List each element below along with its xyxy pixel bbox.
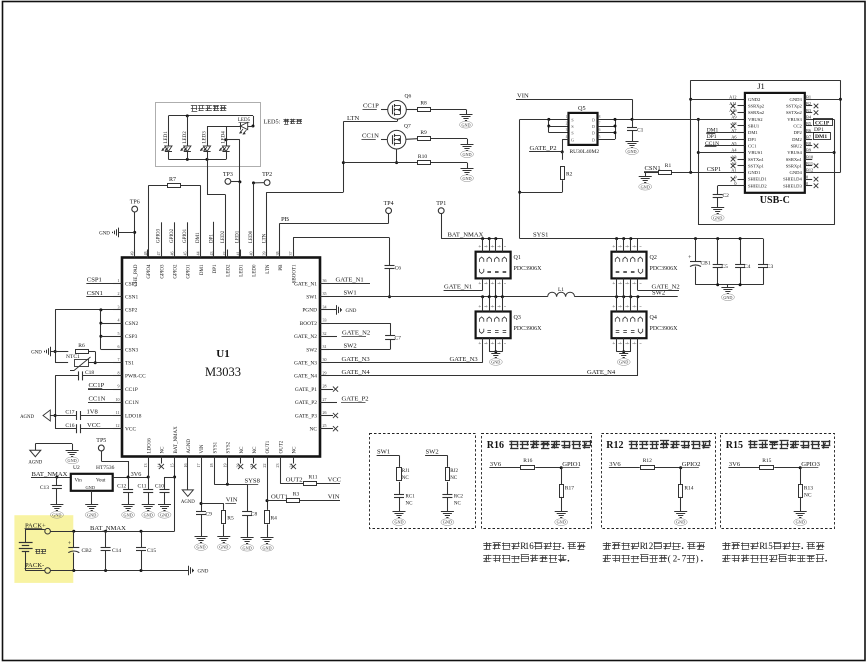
- svg-text:OUT1: OUT1: [271, 494, 288, 501]
- capacitor C1: [631, 118, 634, 121]
- U1 pin 30 GATE_N3: [320, 362, 329, 364]
- transistor Q6: [388, 101, 407, 120]
- svg-text:SSTXn1: SSTXn1: [748, 157, 765, 162]
- svg-text:B7: B7: [806, 134, 812, 139]
- svg-text:R15: R15: [762, 458, 771, 464]
- capacitor C10: [165, 477, 175, 479]
- net GPIO3 wire pin47: [161, 222, 163, 257]
- svg-text:3V6: 3V6: [490, 461, 502, 468]
- svg-text:GND: GND: [796, 520, 805, 525]
- svg-text:NC: NC: [804, 493, 812, 499]
- ground at C2: [711, 207, 724, 209]
- svg-text:SSRXn2: SSRXn2: [748, 110, 765, 115]
- svg-text:VIN: VIN: [517, 92, 529, 99]
- capacitor C5: [717, 239, 719, 265]
- svg-text:VIN: VIN: [226, 497, 238, 504]
- U1 pin 9 CC1P: [113, 389, 122, 391]
- U1 pin 38 PB: [279, 250, 281, 258]
- svg-text:SSRXp2: SSRXp2: [748, 104, 765, 109]
- svg-text:SW1: SW1: [306, 295, 317, 301]
- svg-text:DM1: DM1: [200, 264, 205, 275]
- svg-text:B1: B1: [806, 95, 811, 100]
- net VIN wire to R5: [201, 503, 224, 505]
- svg-text:B5: B5: [806, 121, 811, 126]
- svg-text:27: 27: [323, 397, 327, 402]
- ground at RC2: [441, 511, 454, 513]
- wire pin13 LDO16 to 3V6: [148, 464, 150, 478]
- svg-text:GATE_N2: GATE_N2: [294, 334, 317, 340]
- svg-text:C8: C8: [251, 512, 258, 518]
- svg-text:GATE_N3: GATE_N3: [450, 356, 479, 363]
- wire battery negative rail: [25, 570, 44, 572]
- wire J1 A4 VBUS1: [698, 152, 745, 154]
- net SYS1 wire: [520, 238, 763, 240]
- svg-text:3V6: 3V6: [131, 471, 142, 478]
- U1 pin 48 GPIO4: [147, 250, 149, 258]
- U1 pin 13 LDO16: [148, 457, 150, 464]
- svg-text:7: 7: [118, 357, 120, 362]
- svg-text:TP1: TP1: [436, 201, 446, 207]
- U1 pin 28 GATE_P1: [320, 389, 329, 391]
- wire R10 row: [343, 162, 417, 164]
- svg-text:5: 5: [118, 331, 120, 336]
- svg-text:R16: R16: [523, 458, 532, 464]
- net DP1 wire pin43: [213, 222, 215, 258]
- svg-text:DM2: DM2: [792, 137, 802, 142]
- svg-text:SBU1: SBU1: [748, 124, 760, 129]
- test point TP6: [132, 206, 138, 212]
- svg-text:GATE_P3: GATE_P3: [295, 413, 317, 419]
- svg-text:42: 42: [222, 252, 227, 256]
- svg-text:SYS1: SYS1: [213, 441, 218, 453]
- U1 pin 20 NC: [240, 457, 242, 464]
- U1 pin 25 NC: [320, 428, 329, 430]
- svg-text:LED1: LED1: [235, 230, 240, 243]
- J1 pin 0 SHIELD4: [805, 179, 812, 181]
- svg-text:GND1: GND1: [748, 170, 761, 175]
- IC U1 M3033: [122, 258, 320, 457]
- svg-text:DM1: DM1: [196, 232, 201, 243]
- wire Q2 gate to GATE_N2: [637, 278, 639, 290]
- svg-text:CC1N: CC1N: [362, 133, 379, 140]
- svg-text:CSP1: CSP1: [707, 166, 722, 173]
- svg-text:RJ1: RJ1: [402, 469, 410, 474]
- J1 pin A3 SSTXn1: [738, 159, 745, 161]
- Q4 pin stub marks: [613, 306, 615, 308]
- battery level indicator box: [156, 103, 261, 167]
- svg-text:TP3: TP3: [223, 172, 233, 178]
- svg-text:28: 28: [323, 384, 327, 389]
- J1 pin 0 SHIELD2: [738, 185, 745, 187]
- svg-text:GND: GND: [676, 520, 685, 525]
- svg-text:3V6: 3V6: [609, 461, 621, 468]
- svg-text:35: 35: [323, 291, 327, 296]
- svg-text:PDC3906X: PDC3906X: [650, 326, 679, 332]
- svg-text:R9: R9: [420, 130, 427, 136]
- wire VBUS loop: [698, 119, 700, 224]
- ground at R10: [467, 163, 469, 168]
- J1 pin A1 GND1: [738, 172, 745, 174]
- svg-text:NC: NC: [310, 427, 318, 433]
- svg-text:B12: B12: [806, 168, 813, 173]
- ground at R6: [50, 351, 55, 353]
- svg-text:NC: NC: [406, 502, 414, 507]
- svg-text:B3: B3: [806, 108, 811, 113]
- svg-text:TS1: TS1: [125, 361, 134, 367]
- net GATE_N3 wire pin30: [329, 362, 483, 364]
- svg-text:23: 23: [275, 464, 280, 468]
- net LED0 wire pin40: [253, 183, 255, 258]
- U1 pin 14 NC: [161, 457, 163, 464]
- J1 pin B6 DP2: [805, 132, 812, 134]
- svg-text:R16: R16: [487, 440, 504, 451]
- resistor R3: [287, 499, 300, 503]
- svg-text:SW1: SW1: [377, 448, 390, 455]
- svg-text:7: 7: [599, 122, 601, 126]
- resistor R15: [760, 466, 774, 470]
- U1 pin 44 DM1: [200, 250, 202, 258]
- svg-text:10: 10: [116, 397, 120, 402]
- resistor R16: [521, 466, 535, 470]
- svg-text:SW2: SW2: [426, 448, 439, 455]
- svg-text:D: D: [592, 118, 595, 123]
- svg-text:C2: C2: [723, 193, 730, 199]
- svg-text:LED3: LED3: [203, 131, 208, 144]
- net LTN vertical wire: [343, 122, 345, 193]
- svg-text:3: 3: [566, 128, 568, 132]
- svg-text:GND: GND: [627, 149, 636, 154]
- svg-text:A1: A1: [731, 168, 736, 173]
- capacitor CB2: [73, 531, 75, 547]
- svg-text:31: 31: [323, 344, 327, 349]
- svg-text:D: D: [592, 131, 595, 136]
- wire pin23 OUT2: [280, 464, 282, 484]
- svg-text:SW2: SW2: [306, 347, 317, 353]
- wire VIN row to J1 A9: [632, 119, 745, 121]
- svg-text:3V6: 3V6: [729, 461, 741, 468]
- analog ground AGND tap: [50, 415, 55, 417]
- svg-text:DP1: DP1: [213, 264, 218, 273]
- svg-text:DP2: DP2: [794, 130, 803, 135]
- svg-text:2: 2: [649, 541, 654, 551]
- svg-text:CC2: CC2: [793, 124, 802, 129]
- no-connect pin14: [159, 464, 164, 469]
- U1 pin 49 CHE_PAD: [134, 250, 136, 258]
- svg-text:4: 4: [566, 135, 568, 139]
- transistor Q5 RU30L40M2: [569, 113, 598, 145]
- svg-text:GND: GND: [243, 545, 252, 550]
- net GATE_P2 label pin27: [329, 402, 337, 404]
- svg-text:1V8: 1V8: [87, 409, 99, 416]
- net GPIO1 wire pin45: [187, 222, 189, 257]
- wire J1 B4 VBUS3: [805, 119, 834, 121]
- J1 pin A2 SSTXp1: [738, 165, 745, 167]
- svg-text:6: 6: [529, 541, 534, 551]
- wire LED5 cathode to top bus: [253, 116, 255, 126]
- svg-text:19: 19: [222, 464, 227, 468]
- svg-text:R11: R11: [309, 475, 318, 481]
- wire VIN row left of Q5: [520, 119, 569, 121]
- U1 pin 45 GPIO1: [187, 250, 189, 258]
- svg-text:GND: GND: [196, 545, 205, 550]
- svg-text:GATE_N4: GATE_N4: [587, 369, 616, 376]
- ground at R4: [261, 537, 274, 539]
- svg-text:Vin: Vin: [75, 479, 83, 484]
- svg-text:VBUS1: VBUS1: [748, 150, 763, 155]
- svg-text:S: S: [571, 124, 573, 129]
- svg-text:C15: C15: [147, 548, 156, 554]
- svg-text:LED0: LED0: [249, 230, 254, 243]
- svg-text:22: 22: [262, 464, 267, 468]
- svg-text:R8: R8: [420, 101, 427, 107]
- svg-text:30: 30: [323, 357, 327, 362]
- svg-text:CHE_PAD: CHE_PAD: [134, 264, 139, 286]
- test point TP5: [98, 445, 104, 451]
- U1 pin 36 GATE_N1: [320, 283, 329, 285]
- svg-text:40: 40: [249, 252, 254, 256]
- capacitor C13: [56, 477, 58, 486]
- svg-text:GPIO3: GPIO3: [157, 228, 162, 243]
- svg-text:R14: R14: [684, 486, 693, 492]
- svg-text:SW1: SW1: [344, 290, 357, 297]
- power ground PGND pin34: [329, 309, 336, 311]
- LED bottom bus to pin42 wire: [207, 159, 209, 194]
- net OUT1 wire to R3: [267, 500, 286, 502]
- svg-text:U2: U2: [73, 465, 80, 471]
- svg-text:CC1: CC1: [748, 143, 757, 148]
- svg-text:SHIELD4: SHIELD4: [783, 177, 802, 182]
- capacitor C4: [740, 239, 742, 265]
- U1 pin 40 LED0: [253, 250, 255, 258]
- net GATE_N1 wire pin36: [329, 283, 370, 285]
- net LED1 wire pin41: [239, 182, 241, 258]
- U1 pin 8 PWR-CC: [113, 375, 122, 377]
- U1 pin 18 SYS1: [214, 457, 216, 464]
- svg-text:C3: C3: [767, 264, 774, 270]
- LED LED3: [207, 126, 209, 146]
- svg-text:NC: NC: [253, 446, 258, 454]
- wire Q4 gate to GATE_N4: [637, 338, 639, 376]
- no-connect pin25: [329, 428, 333, 430]
- svg-text:Q7: Q7: [404, 124, 411, 130]
- svg-text:GND: GND: [641, 184, 650, 189]
- svg-text:A12: A12: [729, 95, 736, 100]
- net 3V6 wire from U2: [113, 477, 149, 479]
- resistor R12: [641, 466, 655, 470]
- LED4 tap wire to TP3/pin41: [225, 138, 228, 141]
- U1 pin 3 CSP2: [113, 309, 122, 311]
- U1 pin 6 CSN3: [113, 349, 122, 351]
- svg-text:PGND: PGND: [302, 308, 317, 314]
- svg-text:GND: GND: [462, 176, 471, 181]
- svg-text:25: 25: [323, 423, 327, 428]
- svg-text:13: 13: [143, 464, 148, 468]
- svg-text:BOOT2: BOOT2: [300, 321, 318, 327]
- svg-text:M3033: M3033: [205, 365, 241, 379]
- svg-text:BAT_NMAX: BAT_NMAX: [174, 426, 179, 454]
- svg-text:GND: GND: [86, 485, 96, 490]
- wire Q7 drain to R9: [406, 138, 417, 141]
- svg-text:PACK-: PACK-: [25, 562, 44, 569]
- U1 pin 23 OUT2: [280, 457, 282, 464]
- svg-text:LED2: LED2: [226, 264, 231, 277]
- svg-text:CSP1: CSP1: [87, 277, 102, 284]
- U1 pin 15 BAT_NMAX: [174, 457, 176, 464]
- svg-text:CC1P: CC1P: [363, 103, 379, 110]
- svg-text:3: 3: [118, 304, 120, 309]
- svg-text:GND: GND: [462, 152, 471, 157]
- svg-text:GND: GND: [619, 360, 628, 365]
- wire pin15 BAT_NMAX to battery: [174, 464, 176, 532]
- U1 pin 24 NC: [293, 457, 295, 464]
- svg-text:VBUS3: VBUS3: [787, 117, 802, 122]
- svg-text:CB2: CB2: [82, 548, 92, 554]
- LED second bus wire: [207, 126, 240, 128]
- svg-text:43: 43: [209, 252, 214, 256]
- svg-text:B8: B8: [806, 141, 811, 146]
- svg-text:RJ2: RJ2: [450, 469, 458, 474]
- ground at C1: [626, 141, 639, 143]
- svg-text:12: 12: [116, 423, 120, 428]
- ground at RC1: [393, 511, 406, 513]
- svg-text:NC: NC: [293, 446, 298, 454]
- svg-text:41: 41: [235, 252, 240, 256]
- svg-text:S: S: [571, 118, 573, 123]
- svg-text:LED2: LED2: [183, 131, 188, 144]
- svg-text:RC2: RC2: [454, 495, 464, 500]
- capacitor RC2: [442, 494, 452, 496]
- svg-text:PB: PB: [281, 216, 290, 223]
- svg-text:B9: B9: [806, 148, 811, 153]
- svg-text:BAT_NMAX: BAT_NMAX: [32, 471, 68, 478]
- svg-text:Q6: Q6: [405, 94, 412, 100]
- svg-text:R13: R13: [804, 486, 813, 492]
- J1 pin A12 GND2: [738, 99, 745, 101]
- svg-text:6: 6: [118, 344, 120, 349]
- svg-text:2: 2: [118, 291, 120, 296]
- ground at capacitor bank: [727, 285, 729, 287]
- note text for R16: [483, 543, 491, 545]
- svg-text:39: 39: [262, 252, 267, 256]
- capacitor C14: [105, 531, 107, 547]
- LED bottom bus wire: [168, 159, 226, 161]
- svg-text:USB-C: USB-C: [760, 195, 790, 206]
- svg-text:C12: C12: [117, 484, 126, 490]
- capacitor C18 on PWR-CC: [55, 375, 78, 377]
- U1 pin 16 AGND: [187, 457, 189, 464]
- svg-text:GND: GND: [346, 309, 357, 314]
- svg-text:A9: A9: [731, 115, 736, 120]
- no-connect pin26: [329, 415, 333, 417]
- svg-text:33: 33: [323, 318, 327, 323]
- svg-text:SSTXp2: SSTXp2: [786, 104, 803, 109]
- svg-text:29: 29: [323, 370, 327, 375]
- J1 pin A7 DM1: [738, 132, 745, 134]
- svg-text:0: 0: [806, 174, 808, 179]
- U1 pin 35 SW1: [320, 296, 329, 298]
- transistor Q3 PDC3906X: [476, 312, 511, 339]
- resistor R10: [418, 161, 431, 165]
- connector J1 USB-C body: [745, 93, 805, 193]
- svg-text:SSTXn2: SSTXn2: [786, 110, 803, 115]
- svg-text:S: S: [571, 131, 573, 136]
- transistor Q4 PDC3906X: [612, 312, 647, 339]
- svg-text:Q2: Q2: [650, 255, 657, 261]
- wire Q4 source columns to ground: [616, 338, 618, 352]
- battery cell 电池: [25, 529, 27, 542]
- svg-text:GND: GND: [68, 458, 77, 463]
- svg-text:GPIO2: GPIO2: [682, 461, 701, 468]
- svg-text:GATE_P2: GATE_P2: [530, 145, 557, 152]
- svg-text:SSRXp1: SSRXp1: [786, 163, 803, 168]
- ground at U2: [91, 491, 93, 505]
- capacitor C6: [385, 265, 395, 267]
- transistor Q7: [387, 130, 406, 149]
- wire pins 18-19 SYS to C8: [214, 464, 216, 485]
- svg-text:SHIELD3: SHIELD3: [783, 183, 802, 188]
- svg-text:CSN2: CSN2: [125, 321, 138, 327]
- svg-text:LED5:: LED5:: [264, 119, 281, 126]
- J1 pin B12 GND4: [805, 172, 812, 174]
- svg-text:LTN: LTN: [266, 264, 271, 274]
- svg-text:38: 38: [275, 252, 280, 256]
- J1 pin 0 SHIELD3: [805, 185, 812, 187]
- wire Q1 gate to GATE_N1: [482, 278, 484, 290]
- svg-text:5: 5: [599, 135, 601, 139]
- U1 pin 11 LDO18: [113, 415, 122, 417]
- svg-text:GATE_N2: GATE_N2: [342, 329, 370, 336]
- analog ground AGND pin16: [187, 464, 189, 490]
- svg-text:C13: C13: [40, 485, 49, 491]
- svg-text:GATE_N1: GATE_N1: [294, 281, 317, 287]
- wire Q6 drain to R8: [406, 109, 417, 111]
- J1 pin 0 SHIELD1: [738, 179, 745, 181]
- svg-text:GND: GND: [124, 512, 133, 517]
- svg-text:CC1N: CC1N: [125, 400, 139, 406]
- svg-text:SW2: SW2: [344, 342, 357, 349]
- transistor Q1 PDC3906X: [476, 252, 511, 279]
- svg-text:CSP3: CSP3: [125, 334, 138, 340]
- svg-text:GPIO2: GPIO2: [174, 264, 179, 279]
- svg-text:J1: J1: [757, 81, 765, 91]
- U1 pin 17 VIN: [201, 457, 203, 464]
- svg-text:NTC1: NTC1: [66, 354, 80, 360]
- svg-text:CB1: CB1: [701, 261, 711, 267]
- svg-text:Q4: Q4: [650, 315, 657, 321]
- U1 pin 22 OUT1: [267, 457, 269, 464]
- net BOOT1 wire pin37 to C6: [293, 238, 295, 258]
- svg-text:C7: C7: [395, 336, 402, 342]
- wire J1 A12 to shield rail: [691, 99, 745, 101]
- LED LED5: [240, 122, 247, 129]
- svg-text:GND: GND: [99, 232, 110, 237]
- svg-text:-: -: [677, 554, 680, 564]
- svg-text:TP4: TP4: [384, 201, 394, 207]
- option box R15: [721, 434, 835, 529]
- capacitor C15: [141, 531, 143, 547]
- svg-text:AGND: AGND: [181, 500, 195, 505]
- svg-text:GND: GND: [219, 545, 228, 550]
- svg-text:HT7536: HT7536: [96, 465, 115, 471]
- svg-text:GND: GND: [443, 520, 452, 525]
- svg-text:RU30L40M2: RU30L40M2: [570, 149, 600, 155]
- svg-text:AGND: AGND: [187, 439, 192, 454]
- svg-text:GPIO2: GPIO2: [170, 228, 175, 243]
- svg-text:GND: GND: [31, 351, 42, 356]
- svg-text:OUT1: OUT1: [266, 440, 271, 453]
- svg-text:R7: R7: [169, 177, 176, 183]
- option box SW1 SW2: [370, 434, 476, 529]
